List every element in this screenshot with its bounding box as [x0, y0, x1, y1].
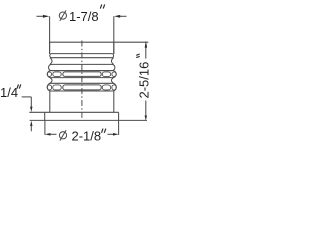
band U medium oval right: [102, 85, 110, 90]
body left edge lower section: [49, 91, 51, 112]
height dimension upper shaft: [145, 48, 147, 59]
quarter inch leader horizontal: [22, 96, 32, 98]
height dimension bottom arrow: [145, 116, 147, 121]
svg-text:1-7/8: 1-7/8: [69, 9, 99, 24]
band S small oval left: [47, 72, 51, 77]
flange right edge: [118, 112, 120, 120]
band U small oval right: [112, 85, 116, 90]
band S long stadium: [63, 72, 101, 77]
band U outer stadium: [47, 83, 116, 91]
silhouette concave right between S and U: [111, 78, 113, 84]
silhouette concave left between S and U: [50, 78, 52, 84]
band S medium oval left: [53, 72, 61, 77]
height dimension top arrow: [145, 41, 148, 48]
band U medium oval left: [53, 85, 61, 90]
band U small oval left: [47, 85, 51, 90]
centerline: [81, 41, 83, 121]
bottom dimension right arrow: [113, 133, 119, 136]
diameter symbol top: [59, 10, 66, 21]
svg-text:1/4: 1/4: [0, 85, 18, 100]
top dimension line left segment: [37, 15, 44, 17]
right extension line / body right edge upper: [113, 16, 115, 54]
rib slot P: [50, 54, 114, 58]
band U long stadium: [63, 85, 101, 90]
bottom dimension line left segment: [50, 133, 57, 135]
rib slot R: [49, 64, 115, 70]
diameter symbol bottom: [59, 130, 66, 141]
quarter inch upper arrow: [30, 107, 32, 112]
bottom dimension extension line right: [118, 121, 120, 135]
bottom dimension extension line left: [44, 121, 46, 135]
left extension line / body left edge upper: [49, 16, 51, 54]
quarter inch leader vertical + upper arrow shaft: [30, 97, 32, 107]
quarter inch lower arrow shaft: [30, 126, 32, 132]
top dimension right arrow: [114, 15, 120, 18]
quarter inch lower arrow: [30, 121, 32, 126]
body right edge top section: [113, 42, 115, 54]
body right edge lower section: [113, 91, 115, 112]
top dimension ditto mark: [100, 4, 104, 8]
body top edge with right extension to height dimension: [50, 41, 149, 43]
height dimension ditto mark rotated: [136, 54, 140, 58]
silhouette concave right between P and R: [111, 58, 113, 65]
bottom dimension left arrow: [45, 133, 51, 136]
quarter inch ditto mark: [17, 84, 21, 88]
band S medium oval right: [102, 72, 110, 77]
band S outer stadium: [47, 71, 116, 78]
top dimension line right segment: [120, 15, 127, 17]
flange bottom edge with extensions both sides: [30, 119, 147, 121]
svg-text:2-1/8: 2-1/8: [72, 128, 102, 143]
body left edge top section: [49, 42, 51, 54]
silhouette concave left between P and R: [50, 58, 52, 65]
bottom dimension line right segment: [108, 133, 114, 135]
flange left edge: [44, 112, 46, 120]
height dimension lower shaft: [145, 101, 147, 117]
svg-text:2-5/16: 2-5/16: [137, 62, 150, 99]
top dimension left arrow: [43, 15, 50, 18]
bottom dimension ditto mark: [102, 129, 106, 133]
band S small oval right: [112, 72, 116, 77]
flange top edge with left extension for 1/4 dim: [29, 111, 118, 113]
